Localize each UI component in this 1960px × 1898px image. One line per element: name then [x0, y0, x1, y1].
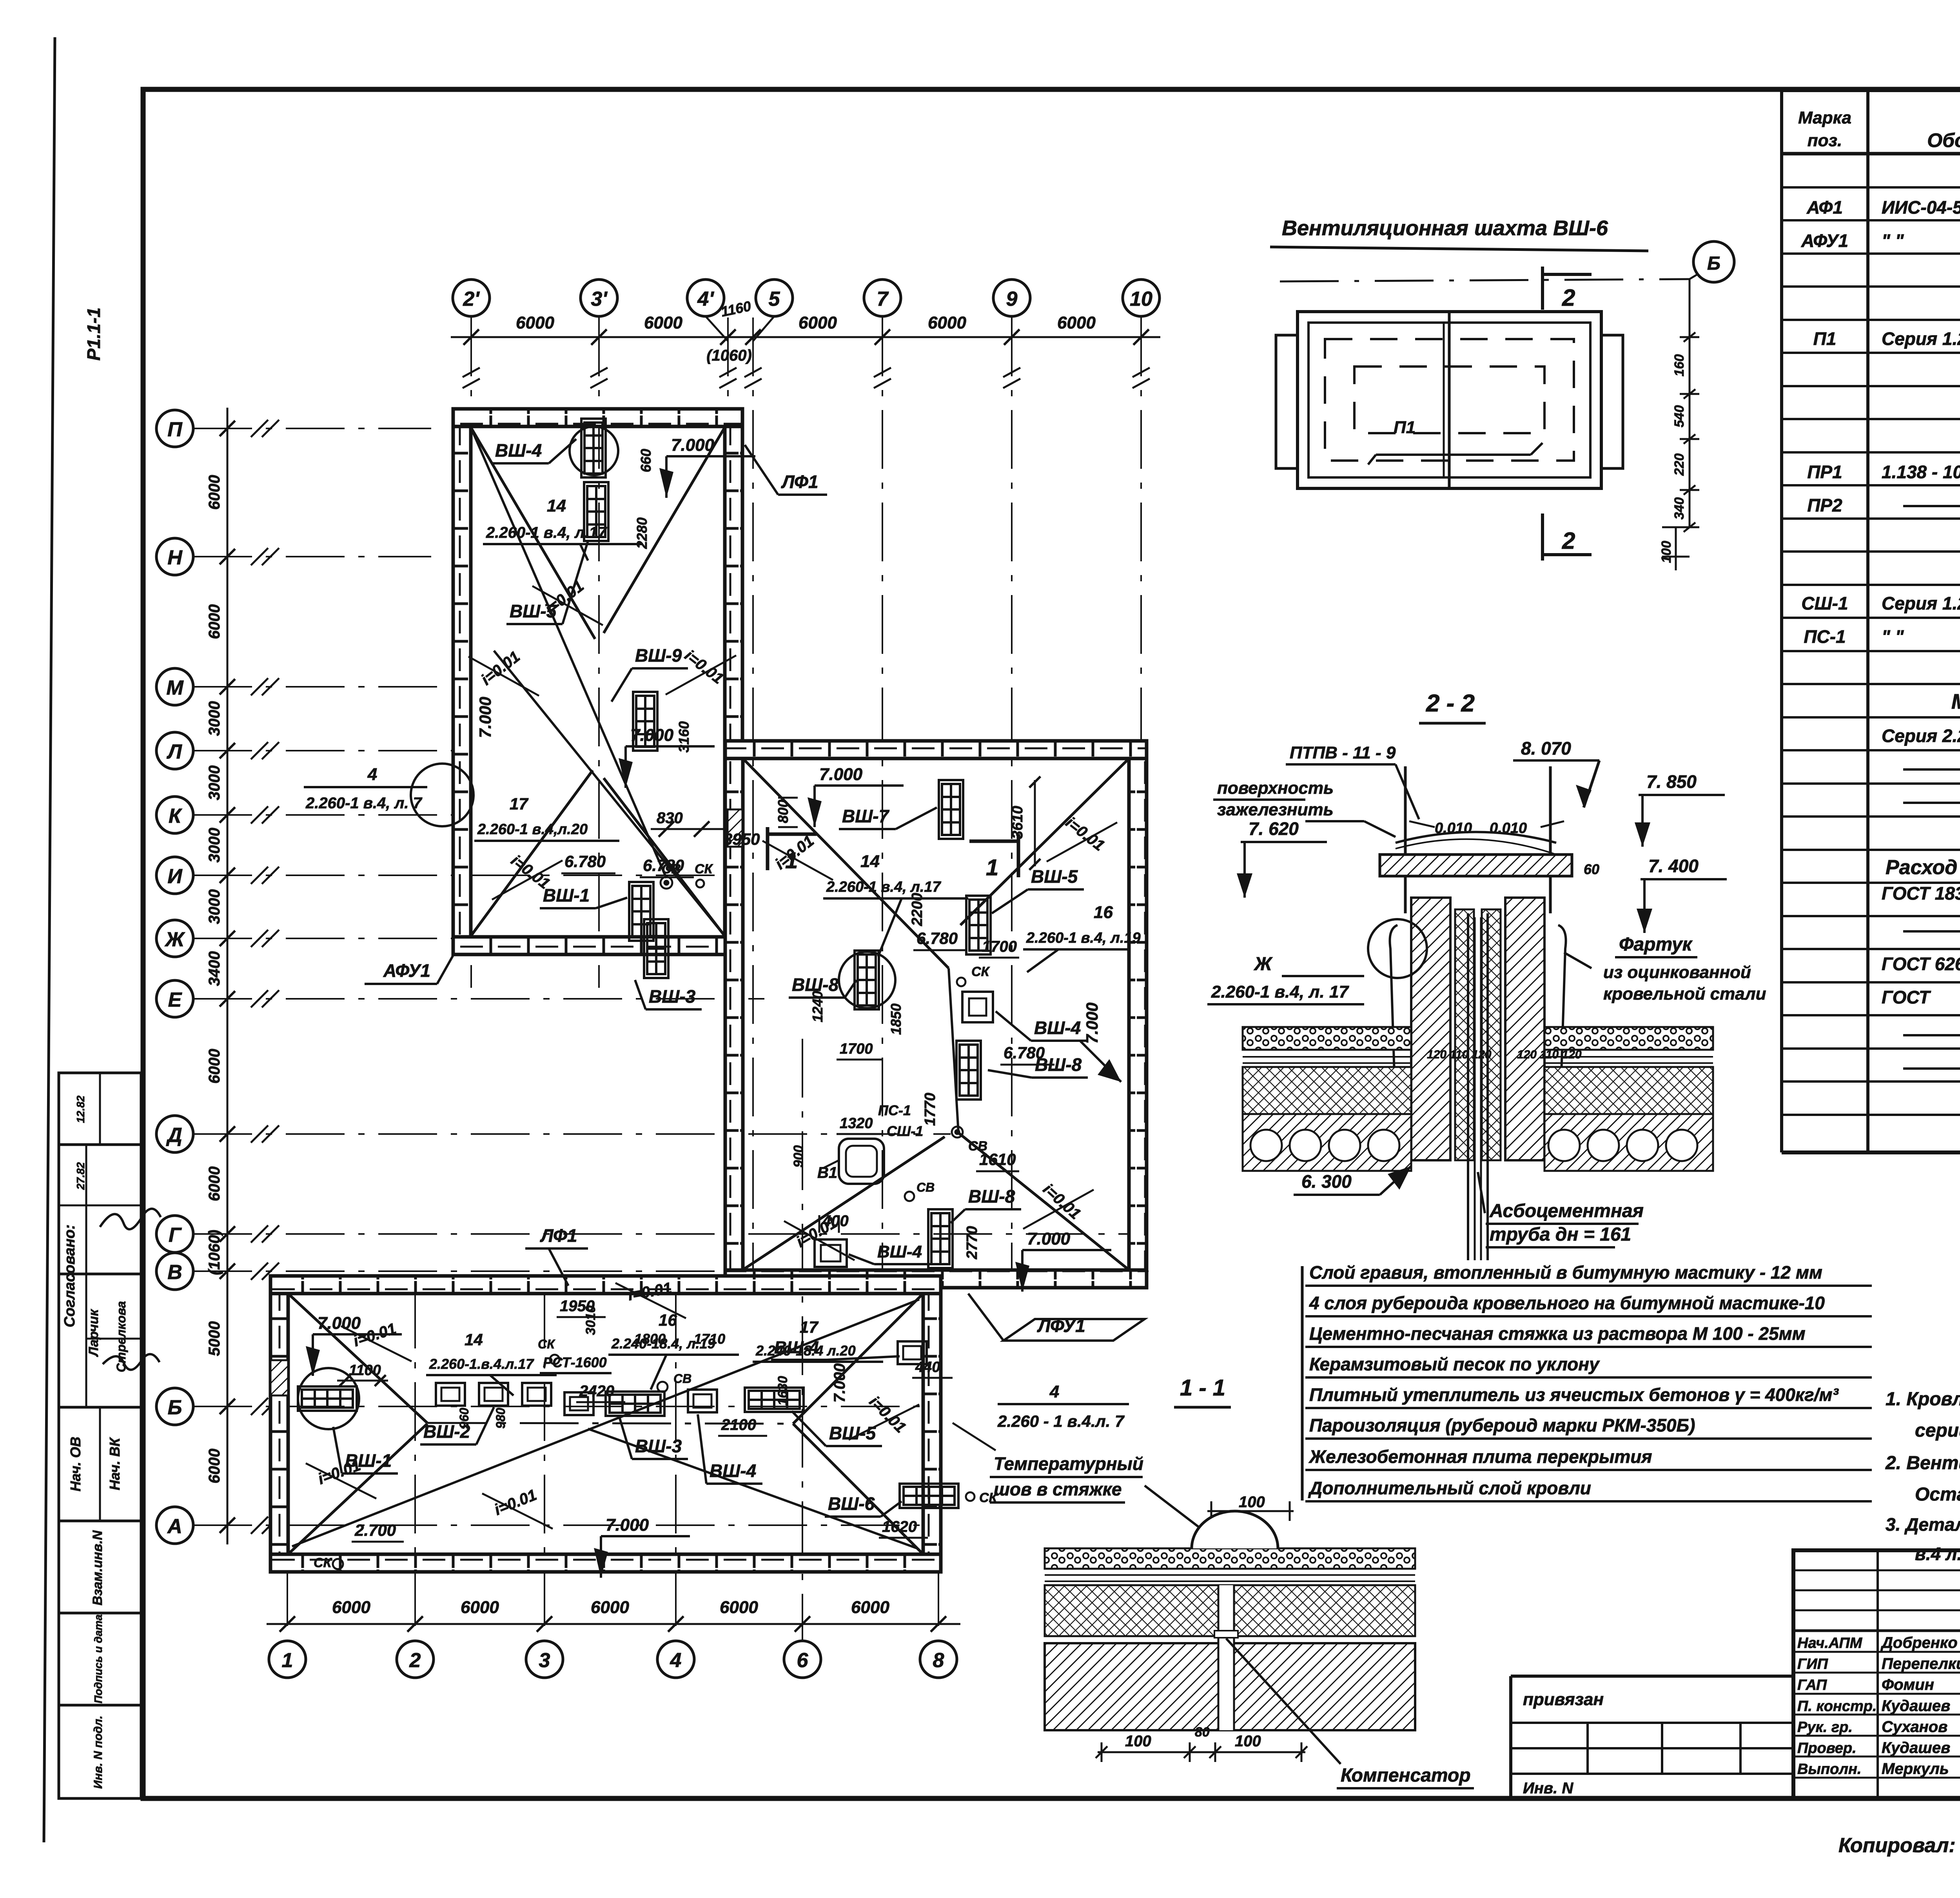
svg-text:6000: 6000 [206, 604, 223, 639]
svg-text:ВШ-3: ВШ-3 [635, 1436, 682, 1456]
apron left small [1390, 925, 1397, 1074]
svg-text:1630: 1630 [775, 1376, 790, 1406]
svg-text:ВШ-4: ВШ-4 [1034, 1018, 1081, 1038]
svg-text:А: А [167, 1515, 182, 1538]
svg-text:3400: 3400 [206, 951, 223, 986]
block A hip diagonals [471, 427, 595, 639]
svg-text:Копировал: Мочалова: Копировал: Мочалова [1838, 1834, 1960, 1857]
svg-text:3000: 3000 [206, 889, 223, 924]
top dimension line [451, 336, 1160, 338]
svg-text:1.138 - 10 в. 1: 1.138 - 10 в. 1 [1882, 462, 1960, 482]
svg-text:100: 100 [1659, 541, 1674, 563]
top axis circles [453, 279, 490, 316]
svg-text:Меркуль: Меркуль [1882, 1760, 1949, 1778]
block B hip diagonals [744, 759, 949, 968]
svg-text:ПР1: ПР1 [1807, 462, 1842, 482]
svg-text:Добренко: Добренко [1880, 1634, 1958, 1651]
asbestos pipe center [1467, 913, 1469, 1260]
svg-text:3. Детали заделки крепления: 3. Детали заделки крепления радиостойки … [1886, 1514, 1960, 1535]
svg-text:1100: 1100 [349, 1362, 381, 1379]
svg-text:2. Вентшахты ВШ-8, ВШ-1, ВШ: 2. Вентшахты ВШ-8, ВШ-1, ВШ-4 смотри лис… [1885, 1453, 1960, 1473]
svg-text:6000: 6000 [461, 1598, 499, 1617]
block B walls [725, 741, 1147, 758]
svg-text:660: 660 [638, 449, 654, 472]
svg-text:1240: 1240 [809, 991, 826, 1022]
svg-text:Н: Н [167, 546, 183, 569]
svg-text:2.260-1 в.4, л.17: 2.260-1 в.4, л.17 [826, 879, 942, 895]
svg-text:7.000: 7.000 [1083, 1002, 1101, 1043]
svg-text:7.000: 7.000 [831, 1363, 848, 1403]
svg-text:шов в стяжке: шов в стяжке [994, 1479, 1122, 1499]
temperature seam leader from block C right [953, 1423, 996, 1450]
svg-text:Цементно-песчаная стяжка из: Цементно-песчаная стяжка из раствора М 1… [1309, 1323, 1806, 1344]
svg-text:4: 4 [1049, 1382, 1059, 1401]
svg-text:6000: 6000 [516, 313, 554, 332]
axis break marks left [251, 420, 268, 437]
svg-text:3160: 3160 [676, 721, 692, 753]
svg-text:7.000: 7.000 [1027, 1229, 1071, 1248]
svg-text:" ": " " [1882, 626, 1904, 647]
axis circle B [1693, 241, 1734, 282]
axis dash-dot line to circle B [1280, 279, 1690, 281]
svg-text:1320: 1320 [840, 1115, 873, 1132]
svg-text:17: 17 [510, 795, 528, 813]
svg-text:СК: СК [695, 862, 713, 876]
section flag 2 bottom [1541, 514, 1544, 561]
svg-text:ГОСТ 1839 - 72*: ГОСТ 1839 - 72* [1882, 883, 1960, 904]
svg-text:1 - 1: 1 - 1 [1180, 1375, 1225, 1401]
svg-text:поз.: поз. [1808, 131, 1842, 150]
svg-text:60: 60 [1584, 861, 1599, 877]
svg-text:ГИП: ГИП [1797, 1656, 1828, 1673]
svg-text:4: 4 [670, 1649, 682, 1672]
svg-text:6.780: 6.780 [1004, 1043, 1045, 1062]
svg-text:100: 100 [1235, 1733, 1261, 1750]
svg-text:труба дн = 161: труба дн = 161 [1490, 1224, 1631, 1245]
svg-text:6000: 6000 [206, 475, 223, 510]
shaft head cap [1396, 832, 1556, 843]
svg-text:6.780: 6.780 [564, 852, 606, 871]
svg-text:3000: 3000 [206, 828, 223, 863]
left axis circles and lines [156, 410, 193, 447]
svg-text:М: М [166, 677, 184, 699]
svg-text:16: 16 [1094, 903, 1113, 922]
svg-text:Согласовано:: Согласовано: [62, 1225, 78, 1327]
svg-text:Б: Б [1707, 253, 1720, 274]
extra verticals inside plan [802, 1039, 803, 1641]
svg-text:П: П [167, 418, 183, 441]
svg-text:2: 2 [1562, 528, 1575, 554]
svg-text:П1: П1 [1394, 418, 1416, 437]
svg-text:4': 4' [697, 288, 714, 310]
svg-text:100: 100 [1125, 1733, 1151, 1750]
svg-text:2.260-1 в.4, л.17: 2.260-1 в.4, л.17 [486, 524, 607, 541]
svg-text:СВ: СВ [968, 1139, 987, 1154]
block C hip diagonals [289, 1294, 427, 1423]
svg-text:4 слоя рубероида кровельного: 4 слоя рубероида кровельного на битумной… [1309, 1293, 1825, 1313]
svg-text:ВШ-4: ВШ-4 [710, 1461, 756, 1481]
svg-text:Суханов: Суханов [1882, 1718, 1947, 1735]
svg-text:1: 1 [986, 855, 998, 880]
svg-text:Температурный: Температурный [994, 1453, 1143, 1474]
svg-text:ГОСТ: ГОСТ [1882, 987, 1931, 1007]
svg-text:Е: Е [168, 989, 182, 1011]
svg-text:0.010: 0.010 [1435, 820, 1472, 836]
svg-text:6000: 6000 [206, 1449, 223, 1484]
svg-text:Перепелкин: Перепелкин [1882, 1655, 1960, 1673]
svg-text:Компенсатор: Компенсатор [1341, 1765, 1471, 1786]
shaft plan rects [1298, 312, 1601, 488]
svg-text:6. 300: 6. 300 [1301, 1171, 1352, 1192]
svg-text:СК: СК [314, 1555, 332, 1570]
kompensator label [1226, 1639, 1341, 1764]
svg-text:Провер.: Провер. [1797, 1740, 1857, 1756]
svg-text:120 110 120: 120 110 120 [1517, 1048, 1582, 1061]
svg-text:Д: Д [166, 1124, 182, 1147]
svg-text:6000: 6000 [206, 1049, 223, 1084]
svg-text:Вентиляционная шахта ВШ-6: Вентиляционная шахта ВШ-6 [1282, 216, 1608, 240]
svg-text:зажелезнить: зажелезнить [1217, 800, 1334, 819]
svg-text:7.000: 7.000 [318, 1314, 361, 1333]
block C shafts [298, 1368, 359, 1429]
svg-text:Нач. ВК: Нач. ВК [107, 1437, 123, 1490]
svg-text:800: 800 [775, 800, 791, 823]
svg-text:Дополнительный слой кровл: Дополнительный слой кровли [1308, 1478, 1591, 1498]
right wall hatched column [1505, 898, 1544, 1160]
svg-text:СК: СК [971, 964, 990, 979]
svg-text:Фомин: Фомин [1882, 1676, 1934, 1693]
svg-text:привязан: привязан [1523, 1690, 1604, 1709]
svg-text:ВШ-4: ВШ-4 [877, 1242, 922, 1261]
section flag 2 top [1541, 267, 1544, 310]
svg-text:7.000: 7.000 [819, 765, 863, 784]
svg-text:10: 10 [1130, 288, 1152, 310]
svg-text:7. 400: 7. 400 [1648, 856, 1699, 876]
block A shafts [581, 419, 606, 477]
svg-text:1800: 1800 [634, 1331, 666, 1347]
svg-text:АФ1: АФ1 [1806, 197, 1843, 218]
block C walls [270, 1276, 941, 1294]
svg-text:Ж: Ж [164, 928, 185, 951]
svg-text:ВШ-6: ВШ-6 [828, 1493, 875, 1514]
svg-text:2 - 2: 2 - 2 [1426, 690, 1475, 717]
svg-text:3000: 3000 [206, 766, 223, 800]
svg-text:ГАП: ГАП [1797, 1677, 1827, 1693]
svg-text:Ж: Ж [1253, 954, 1273, 974]
svg-text:120 110 120: 120 110 120 [1427, 1048, 1492, 1061]
svg-text:Серия 2.260 - 1 в. 4: Серия 2.260 - 1 в. 4 [1882, 726, 1960, 746]
svg-text:Железобетонная плита пер: Железобетонная плита перекрытия [1308, 1446, 1652, 1467]
svg-text:2100: 2100 [721, 1416, 756, 1433]
svg-text:ПТПВ - 11 - 9: ПТПВ - 11 - 9 [1290, 743, 1396, 762]
svg-text:Серия 1.269 - 2: Серия 1.269 - 2 [1882, 593, 1960, 613]
svg-text:6000: 6000 [1057, 313, 1096, 332]
svg-text:Марка: Марка [1798, 108, 1851, 127]
svg-text:1620: 1620 [882, 1518, 917, 1535]
svg-text:из оцинкованной: из оцинкованной [1603, 963, 1751, 982]
svg-text:7. 850: 7. 850 [1646, 771, 1697, 792]
svg-text:2.260-1.в.4.л.17: 2.260-1.в.4.л.17 [429, 1356, 534, 1372]
svg-text:Б: Б [168, 1396, 182, 1419]
svg-text:ВШ-8: ВШ-8 [968, 1186, 1015, 1207]
right dim chain [1689, 279, 1691, 527]
svg-text:2.700: 2.700 [354, 1521, 396, 1539]
svg-text:в.4 л. 2.1.: в.4 л. 2.1. [1915, 1544, 1960, 1564]
voids left [1250, 1130, 1282, 1161]
svg-text:ВШ-4: ВШ-4 [495, 440, 542, 461]
svg-text:8. 070: 8. 070 [1521, 738, 1571, 758]
svg-text:7.000: 7.000 [671, 435, 715, 455]
svg-text:СШ-1: СШ-1 [1801, 593, 1848, 613]
svg-text:6: 6 [797, 1649, 809, 1672]
svg-text:5: 5 [769, 288, 780, 310]
shaft vertical walls above roof [1404, 766, 1407, 855]
svg-text:Взам.инв.N: Взам.инв.N [90, 1530, 105, 1606]
svg-text:16: 16 [659, 1311, 677, 1329]
label 4 / 2.260 on K axis [411, 764, 474, 826]
svg-text:6000: 6000 [591, 1598, 629, 1617]
svg-text:АФУ1: АФУ1 [383, 960, 430, 981]
svg-text:Выполн.: Выполн. [1797, 1761, 1861, 1778]
dim 100 80 100 below [1098, 1751, 1305, 1753]
svg-text:ПС-1: ПС-1 [1804, 626, 1846, 647]
svg-text:ВШ-9: ВШ-9 [635, 645, 682, 666]
svg-text:ПС-1: ПС-1 [878, 1102, 911, 1118]
svg-text:Р1.1-1: Р1.1-1 [83, 307, 104, 361]
svg-text:СВ: СВ [673, 1372, 691, 1386]
svg-text:6000: 6000 [206, 1167, 223, 1201]
svg-text:ЛФ1: ЛФ1 [781, 472, 818, 492]
left stamp column [59, 1073, 141, 1145]
vertical axis lines top [470, 318, 472, 988]
svg-text:Рук. гр.: Рук. гр. [1797, 1719, 1853, 1735]
svg-text:Монтажные элементы кровли: Монтажные элементы кровли [1951, 690, 1960, 713]
svg-text:900: 900 [791, 1145, 806, 1168]
svg-text:РСТ-1600: РСТ-1600 [543, 1354, 607, 1370]
left sub-table (privyazan) [1511, 1675, 1793, 1678]
svg-text:5000: 5000 [206, 1321, 223, 1356]
svg-text:2420: 2420 [579, 1383, 614, 1400]
svg-text:Инв. N: Инв. N [1523, 1780, 1573, 1797]
left dimension line [227, 408, 229, 1544]
svg-text:1. Кровлю выполнить в: 1. Кровлю выполнить в соответствии с ука… [1886, 1389, 1960, 1410]
hump arc [1192, 1511, 1278, 1548]
svg-text:ГОСТ 6266 - 67: ГОСТ 6266 - 67 [1882, 954, 1960, 974]
svg-text:СВ: СВ [916, 1180, 935, 1194]
specification table [1780, 90, 1783, 1152]
svg-text:14: 14 [860, 852, 880, 871]
svg-text:9: 9 [1006, 288, 1018, 310]
svg-text:Обозначение: Обозначение [1927, 129, 1960, 151]
svg-text:540: 540 [1672, 405, 1687, 428]
svg-text:ВШ-5: ВШ-5 [1031, 866, 1078, 887]
svg-text:2770: 2770 [964, 1226, 980, 1260]
svg-text:Нач. ОВ: Нач. ОВ [67, 1437, 83, 1492]
svg-text:3610: 3610 [1009, 806, 1026, 839]
bottom axis circles [269, 1641, 306, 1678]
svg-text:2.260-1 в.4, л. 17: 2.260-1 в.4, л. 17 [1211, 982, 1349, 1002]
bottom axis lines [287, 1290, 288, 1641]
svg-text:Керамзитовый песок по ук: Керамзитовый песок по уклону [1309, 1354, 1600, 1374]
svg-text:6000: 6000 [332, 1598, 370, 1617]
svg-text:Кудашев: Кудашев [1882, 1739, 1950, 1756]
svg-text:2.260-1 в.4, л. 7: 2.260-1 в.4, л. 7 [305, 795, 423, 812]
svg-text:14: 14 [547, 496, 566, 515]
svg-text:Подпись и дата: Подпись и дата [92, 1615, 104, 1704]
svg-text:220: 220 [1672, 454, 1687, 476]
sheet left edge line [44, 37, 55, 1842]
svg-text:340: 340 [1672, 497, 1687, 520]
svg-text:80: 80 [1195, 1725, 1210, 1740]
svg-text:3000: 3000 [206, 701, 223, 736]
squiggle signatures left [100, 1209, 161, 1229]
svg-text:(1060): (1060) [206, 1230, 223, 1275]
block B shafts [939, 780, 963, 839]
svg-text:17: 17 [800, 1318, 818, 1336]
bottom dimension line [267, 1623, 960, 1625]
svg-text:6000: 6000 [928, 313, 966, 332]
svg-text:Ларчик: Ларчик [86, 1308, 101, 1357]
svg-text:7: 7 [877, 288, 889, 310]
dashed inner rects [1325, 339, 1574, 461]
svg-text:160: 160 [1672, 354, 1687, 377]
expansion joint in slab [1218, 1585, 1234, 1730]
axis break marks top [463, 368, 480, 377]
svg-text:1: 1 [282, 1649, 293, 1672]
svg-text:ИИС-04-5 в. 15: ИИС-04-5 в. 15 [1882, 197, 1960, 218]
title block [1793, 1550, 1960, 1798]
svg-text:14: 14 [465, 1330, 483, 1349]
svg-text:440: 440 [915, 1359, 940, 1375]
svg-text:ВШ-5: ВШ-5 [829, 1423, 877, 1443]
svg-text:12.82: 12.82 [74, 1096, 87, 1123]
svg-text:7.000: 7.000 [630, 726, 674, 745]
svg-text:4: 4 [367, 765, 377, 784]
svg-text:Л: Л [166, 740, 182, 763]
svg-text:Остальные выполнить по: Остальные выполнить по их типу. [1915, 1484, 1960, 1505]
svg-text:7.000: 7.000 [606, 1515, 649, 1535]
svg-text:2.240-18.4 л.20: 2.240-18.4 л.20 [755, 1343, 856, 1359]
svg-text:960: 960 [457, 1408, 471, 1429]
svg-text:П. констр.: П. констр. [1797, 1698, 1877, 1715]
svg-text:3': 3' [591, 288, 608, 310]
svg-text:980: 980 [494, 1408, 508, 1429]
svg-text:СК: СК [979, 1490, 998, 1505]
svg-text:3: 3 [539, 1649, 550, 1672]
svg-text:П1: П1 [1813, 328, 1837, 349]
svg-text:6.780: 6.780 [643, 856, 684, 875]
svg-text:поверхность: поверхность [1217, 778, 1334, 798]
svg-text:2280: 2280 [634, 517, 650, 549]
dim 100 over hump [1207, 1510, 1294, 1512]
svg-text:1850: 1850 [888, 1003, 904, 1035]
svg-text:Серия 1.243 - 2 в. 1: Серия 1.243 - 2 в. 1 [1882, 328, 1960, 349]
svg-text:6000: 6000 [644, 313, 682, 332]
svg-text:К: К [169, 805, 182, 827]
svg-text:Плитный утеплитель из ячеис: Плитный утеплитель из ячеистых бетонов γ… [1309, 1384, 1839, 1405]
svg-text:СШ-1: СШ-1 [887, 1123, 923, 1139]
cap slab hatched [1380, 855, 1572, 876]
svg-text:Г: Г [169, 1224, 182, 1247]
svg-text:1710: 1710 [694, 1331, 725, 1347]
svg-text:И: И [167, 865, 183, 888]
svg-text:2200: 2200 [909, 893, 926, 927]
svg-text:8: 8 [933, 1649, 944, 1672]
svg-text:6000: 6000 [851, 1598, 889, 1617]
svg-text:6.780: 6.780 [916, 929, 958, 947]
svg-text:АФУ1: АФУ1 [1801, 230, 1848, 251]
svg-text:Асбоцементная: Асбоцементная [1489, 1201, 1644, 1221]
svg-text:2.260-1 в.4,л.20: 2.260-1 в.4,л.20 [477, 821, 588, 838]
svg-text:Инв. N подл.: Инв. N подл. [92, 1716, 105, 1789]
svg-text:серии 2.260-1 выпуск 4.: серии 2.260-1 выпуск 4. [1915, 1420, 1960, 1441]
svg-text:1700: 1700 [982, 938, 1017, 955]
svg-text:3010: 3010 [583, 1305, 598, 1335]
svg-text:Слой гравия, втопленный в б: Слой гравия, втопленный в битумную масти… [1309, 1262, 1822, 1283]
svg-text:ПР2: ПР2 [1807, 495, 1842, 515]
1-1 section drawing [1045, 1548, 1415, 1569]
svg-text:ЛФ1: ЛФ1 [540, 1225, 577, 1246]
svg-text:ВШ-3: ВШ-3 [649, 986, 696, 1007]
svg-text:1700: 1700 [840, 1041, 873, 1057]
svg-text:СК: СК [538, 1337, 555, 1351]
svg-text:ВШ-7: ВШ-7 [842, 806, 890, 826]
svg-text:27.82: 27.82 [74, 1162, 87, 1190]
svg-text:3950: 3950 [723, 830, 760, 848]
roof build-up right wing [1544, 1027, 1713, 1050]
svg-text:Стрелкова: Стрелкова [114, 1301, 128, 1372]
roof build-up left wing [1243, 1027, 1411, 1050]
svg-text:" ": " " [1882, 230, 1904, 251]
roof layers list [1301, 1266, 1304, 1501]
svg-text:2: 2 [1562, 285, 1575, 311]
section flags 1-1 through block B [766, 827, 769, 870]
svg-text:2': 2' [463, 288, 480, 310]
corner hatch marks [728, 809, 742, 847]
svg-text:7. 620: 7. 620 [1249, 818, 1299, 839]
svg-text:(1060): (1060) [706, 347, 752, 364]
svg-text:100: 100 [1239, 1493, 1265, 1511]
block A walls [453, 409, 742, 426]
svg-text:2: 2 [409, 1649, 421, 1672]
svg-text:1770: 1770 [922, 1093, 938, 1126]
left wall hatched column [1411, 898, 1450, 1160]
svg-text:Расход материалов для облиц: Расход материалов для облицовки венткана… [1886, 856, 1960, 879]
svg-text:2.260 - 1 в.4.л. 7: 2.260 - 1 в.4.л. 7 [997, 1412, 1125, 1430]
svg-text:ВШ-1: ВШ-1 [543, 885, 590, 905]
svg-text:Пароизоляция (рубероид марки: Пароизоляция (рубероид марки РКМ-350Б) [1309, 1415, 1695, 1435]
svg-text:Кудашев: Кудашев [1882, 1697, 1950, 1715]
svg-text:2.260-1 в.4, л.19: 2.260-1 в.4, л.19 [1026, 930, 1141, 946]
svg-text:7.000: 7.000 [476, 697, 494, 738]
svg-text:Фартук: Фартук [1619, 934, 1693, 955]
svg-text:Нач.АПМ: Нач.АПМ [1797, 1635, 1863, 1651]
svg-text:кровельной стали: кровельной стали [1603, 984, 1766, 1003]
svg-text:6000: 6000 [799, 313, 837, 332]
svg-text:0.010: 0.010 [1490, 820, 1527, 836]
svg-text:В: В [167, 1261, 182, 1284]
svg-text:6000: 6000 [720, 1598, 758, 1617]
